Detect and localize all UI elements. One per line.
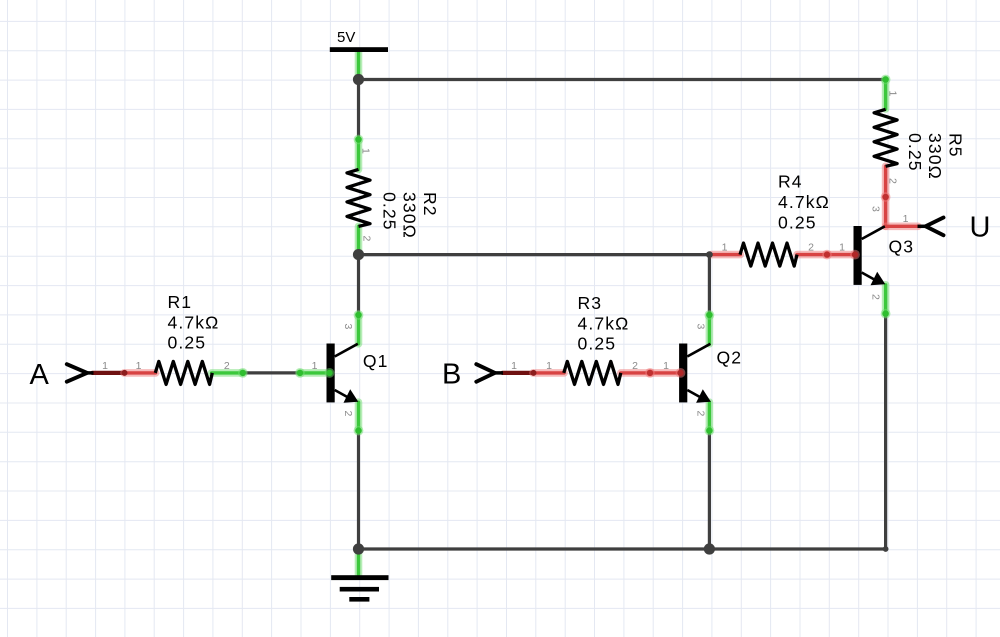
R4 pin 1 leg red bbox=[711, 251, 740, 259]
resistor R1 bbox=[155, 361, 212, 384]
svg-text:0.25: 0.25 bbox=[379, 192, 399, 231]
svg-text:2: 2 bbox=[224, 360, 230, 372]
svg-text:1: 1 bbox=[102, 360, 108, 372]
svg-text:U: U bbox=[970, 212, 991, 244]
svg-text:2: 2 bbox=[808, 242, 814, 254]
transistor Q2 bbox=[679, 344, 711, 403]
R3 pin 2 leg red bbox=[621, 369, 650, 377]
R4 pin 2 leg red bbox=[797, 251, 827, 259]
svg-text:1: 1 bbox=[839, 242, 845, 254]
pin label Q1 pin2 rotated bbox=[342, 411, 354, 417]
svg-text:R4: R4 bbox=[778, 172, 803, 192]
svg-text:Q1: Q1 bbox=[363, 351, 389, 371]
green dot R2 pin1 bbox=[354, 135, 364, 145]
R1 pin 1 leg red bbox=[124, 369, 156, 377]
wire input A dark red bbox=[92, 371, 124, 375]
wire R3 to Q2 base red bbox=[650, 369, 681, 377]
svg-text:2: 2 bbox=[342, 411, 354, 417]
svg-text:3: 3 bbox=[695, 324, 707, 330]
wire node to Q1 collector bbox=[357, 255, 360, 315]
junction node ground rail Q2 bbox=[704, 543, 715, 554]
green dot Q1 base contact bbox=[325, 368, 335, 378]
pin label Q2 pin3 rotated bbox=[695, 324, 707, 330]
Q1 pin 1 leg green bbox=[300, 369, 329, 377]
5V pin leg green bbox=[355, 52, 363, 80]
pin label Q1 pin3 rotated bbox=[342, 324, 354, 330]
dot input B wire end bbox=[531, 370, 537, 376]
svg-text:3: 3 bbox=[342, 324, 354, 330]
svg-text:330Ω: 330Ω bbox=[925, 133, 945, 180]
svg-text:3: 3 bbox=[870, 206, 882, 212]
pin label Q2 pin2 rotated bbox=[695, 411, 707, 417]
svg-text:2: 2 bbox=[887, 178, 899, 184]
ground symbol bbox=[331, 575, 388, 601]
wire node to Q2 collector bbox=[708, 255, 711, 315]
svg-text:2: 2 bbox=[361, 236, 373, 242]
R5 pin 1 leg green bbox=[882, 80, 890, 110]
label R1 value bbox=[168, 292, 220, 353]
junction node R2/Q1/R4 rail bbox=[353, 249, 364, 260]
output arrow U bbox=[918, 218, 944, 236]
R5 pin 2 leg red bbox=[882, 166, 890, 197]
R2 pin 2 leg green bbox=[355, 226, 363, 253]
wire mid rail R2 to node bbox=[359, 253, 710, 256]
pin label Q3 pin2 rotated bbox=[870, 294, 882, 300]
svg-text:B: B bbox=[442, 359, 461, 391]
svg-text:0.25: 0.25 bbox=[578, 334, 617, 354]
svg-text:5V: 5V bbox=[337, 29, 355, 46]
svg-text:1: 1 bbox=[903, 213, 909, 225]
pin label R2 pin2 rotated bbox=[361, 236, 373, 242]
green dot R5 pin1 top bbox=[881, 75, 891, 85]
junction node 5V rail bbox=[353, 74, 364, 85]
label R5 value rotated bbox=[905, 133, 966, 180]
transistor Q3 bbox=[854, 226, 886, 285]
green dot Q2 collector top bbox=[705, 310, 715, 320]
Q1 pin 2 leg green bbox=[355, 402, 363, 430]
red dot Q3 base contact bbox=[850, 250, 860, 260]
transistor Q1 bbox=[327, 344, 359, 403]
svg-text:0.25: 0.25 bbox=[168, 333, 207, 353]
red dot R3 pin2 end bbox=[645, 368, 655, 378]
dot input A wire end bbox=[122, 370, 128, 376]
junction node ground rail left bbox=[353, 543, 364, 554]
ground pin leg green bbox=[355, 549, 363, 576]
wire Q2 emitter to bottom rail bbox=[708, 431, 711, 549]
svg-text:A: A bbox=[30, 359, 50, 391]
svg-text:4.7kΩ: 4.7kΩ bbox=[778, 192, 830, 212]
green dot R1 pin2 end bbox=[238, 368, 248, 378]
power symbol 5V bar bbox=[330, 47, 388, 52]
svg-text:R2: R2 bbox=[420, 192, 440, 217]
red dot Q2 base contact bbox=[676, 368, 686, 378]
label R3 value bbox=[578, 293, 630, 354]
Q3 pin 2 leg green bbox=[882, 285, 890, 314]
wire 5V junction to R2 pin1 bbox=[357, 80, 360, 140]
wire Q3 emitter down right side bbox=[884, 314, 887, 549]
svg-text:Q2: Q2 bbox=[717, 348, 743, 368]
green dot Q1 emitter bottom bbox=[354, 426, 364, 436]
label R2 value rotated bbox=[379, 192, 440, 239]
pin label Q3 pin3 rotated bbox=[870, 206, 882, 212]
input arrow B bbox=[476, 364, 503, 382]
resistor R2 bbox=[347, 169, 370, 226]
svg-text:2: 2 bbox=[632, 360, 638, 372]
svg-text:4.7kΩ: 4.7kΩ bbox=[578, 313, 630, 333]
svg-text:Q3: Q3 bbox=[889, 236, 915, 256]
label R4 value bbox=[778, 172, 830, 233]
svg-text:1: 1 bbox=[546, 360, 552, 372]
R3 pin 1 leg red bbox=[533, 369, 564, 377]
svg-text:1: 1 bbox=[663, 360, 669, 372]
red dot R5 pin2 end bbox=[881, 192, 891, 202]
svg-text:1: 1 bbox=[887, 91, 899, 97]
svg-text:1: 1 bbox=[136, 360, 142, 372]
pin label R5 pin1 rotated bbox=[887, 91, 899, 97]
wire R1 to Q1 base bbox=[243, 371, 300, 374]
resistor R5 bbox=[874, 109, 897, 166]
wire R5 to Q3 collector red bbox=[882, 197, 890, 226]
svg-text:0.25: 0.25 bbox=[905, 133, 925, 172]
wire input B dark red bbox=[503, 371, 534, 375]
green dot Q2 emitter bottom bbox=[705, 426, 715, 436]
svg-text:4.7kΩ: 4.7kΩ bbox=[168, 312, 220, 332]
svg-text:1: 1 bbox=[511, 360, 517, 372]
wire R4 to Q3 base red bbox=[827, 251, 855, 259]
svg-text:1: 1 bbox=[722, 242, 728, 254]
Q2 pin 2 leg green bbox=[706, 402, 714, 430]
svg-text:1: 1 bbox=[312, 360, 318, 372]
svg-text:R5: R5 bbox=[946, 133, 966, 158]
Q3 collector to output U red bbox=[886, 223, 918, 231]
corner bottom right bbox=[883, 546, 889, 552]
input arrow A bbox=[67, 364, 94, 382]
green dot Q1 collector top bbox=[354, 310, 364, 320]
svg-text:0.25: 0.25 bbox=[778, 212, 817, 232]
svg-text:2: 2 bbox=[695, 411, 707, 417]
wire top rail 5V bbox=[359, 78, 886, 81]
R2 pin 1 leg green bbox=[355, 140, 363, 170]
svg-text:1: 1 bbox=[360, 148, 372, 154]
wire bottom rail right bbox=[709, 547, 885, 550]
wire bottom rail left bbox=[359, 547, 710, 550]
svg-text:330Ω: 330Ω bbox=[400, 192, 420, 239]
junction node Q2 collector rail bbox=[706, 251, 713, 258]
Q2 pin 3 leg green bbox=[706, 315, 714, 344]
green dot Q3 emitter bottom bbox=[881, 309, 891, 319]
wire Q1 emitter to bottom rail bbox=[357, 431, 360, 549]
resistor R4 bbox=[740, 243, 797, 266]
resistor R3 bbox=[564, 361, 621, 384]
pin label R5 pin2 rotated bbox=[887, 178, 899, 184]
pin label R2 pin1 rotated bbox=[360, 148, 372, 154]
red dot R4 pin2 end bbox=[822, 250, 832, 260]
svg-text:R1: R1 bbox=[168, 292, 193, 312]
svg-text:2: 2 bbox=[870, 294, 882, 300]
Q1 pin 3 leg green bbox=[355, 315, 363, 344]
R1 pin 2 leg green bbox=[212, 369, 243, 377]
svg-text:R3: R3 bbox=[578, 293, 603, 313]
green dot wire to Q1 base bbox=[295, 368, 305, 378]
